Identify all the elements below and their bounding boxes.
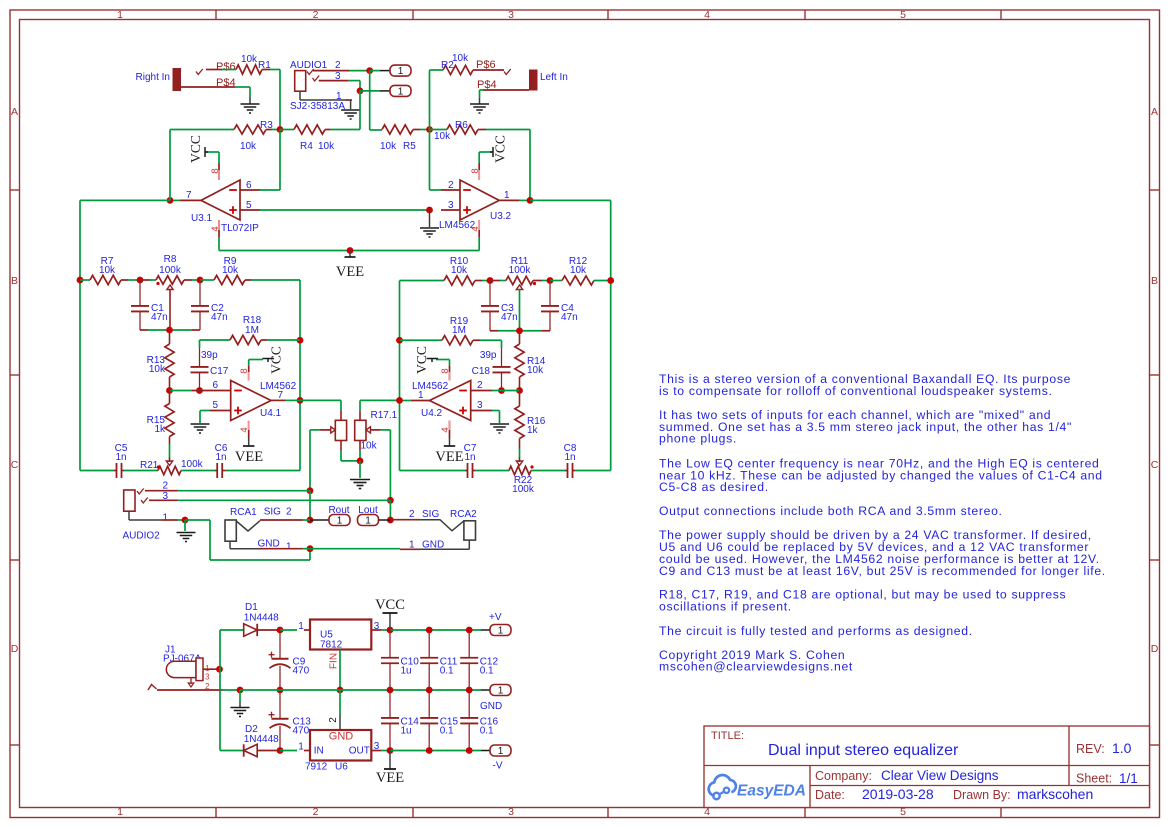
svg-text:4: 4: [239, 427, 250, 432]
svg-text:Left In: Left In: [540, 72, 568, 83]
svg-text:D1: D1: [245, 602, 258, 613]
svg-text:B: B: [11, 275, 18, 287]
svg-text:1: 1: [498, 626, 504, 637]
svg-text:C5-C8 as desired.: C5-C8 as desired.: [659, 480, 769, 494]
svg-text:OUT: OUT: [349, 746, 370, 757]
svg-text:10k: 10k: [318, 141, 335, 152]
svg-text:C17: C17: [210, 366, 229, 377]
svg-text:10k: 10k: [222, 265, 239, 276]
svg-text:Clear View Designs: Clear View Designs: [881, 768, 999, 783]
svg-text:7: 7: [278, 390, 284, 401]
svg-text:Output connections include bot: Output connections include both RCA and …: [659, 504, 1003, 518]
svg-text:Company:: Company:: [815, 769, 872, 783]
svg-text:2: 2: [313, 9, 319, 21]
svg-text:0.1: 0.1: [440, 666, 454, 677]
svg-text:5: 5: [900, 9, 906, 21]
svg-text:1n: 1n: [464, 452, 475, 463]
svg-text:3: 3: [477, 400, 483, 411]
svg-text:10k: 10k: [361, 441, 378, 452]
svg-text:2: 2: [313, 806, 319, 818]
svg-text:FIN: FIN: [329, 653, 340, 669]
svg-text:1: 1: [162, 513, 168, 524]
svg-text:1k: 1k: [527, 425, 539, 436]
svg-text:5: 5: [212, 400, 218, 411]
svg-text:VCC: VCC: [493, 135, 508, 163]
svg-text:1: 1: [337, 516, 343, 527]
svg-text:R3: R3: [260, 120, 273, 131]
svg-text:10k: 10k: [241, 54, 258, 65]
svg-text:R1: R1: [258, 60, 271, 71]
svg-text:1: 1: [286, 542, 292, 553]
svg-text:IN: IN: [314, 746, 324, 757]
svg-text:4: 4: [704, 9, 710, 21]
svg-text:39p: 39p: [201, 350, 218, 361]
svg-text:R6: R6: [455, 120, 468, 131]
svg-text:6: 6: [212, 380, 218, 391]
svg-text:10k: 10k: [452, 53, 469, 64]
svg-text:VCC: VCC: [375, 597, 405, 613]
svg-text:C: C: [11, 459, 19, 471]
svg-text:C9 and C13 must be at least 16: C9 and C13 must be at least 16V, but 25V…: [659, 564, 1106, 578]
svg-text:3: 3: [448, 200, 454, 211]
svg-text:8: 8: [470, 168, 481, 173]
svg-text:0.1: 0.1: [440, 726, 454, 737]
svg-text:10k: 10k: [451, 265, 468, 276]
svg-text:2019-03-28: 2019-03-28: [862, 786, 934, 802]
svg-text:1M: 1M: [245, 325, 259, 336]
svg-text:7812: 7812: [320, 640, 343, 651]
svg-text:U6: U6: [335, 762, 348, 773]
svg-text:8: 8: [239, 368, 250, 373]
svg-text:5: 5: [246, 200, 252, 211]
svg-text:2: 2: [448, 180, 454, 191]
svg-text:Dual input stereo equalizer: Dual input stereo equalizer: [768, 742, 959, 759]
svg-text:SIG: SIG: [422, 509, 439, 520]
svg-text:1N4448: 1N4448: [244, 734, 279, 745]
svg-text:LM4562: LM4562: [439, 220, 476, 231]
svg-text:39p: 39p: [480, 350, 497, 361]
svg-text:1: 1: [298, 742, 304, 753]
svg-text:4: 4: [210, 226, 221, 231]
svg-text:D: D: [1151, 643, 1159, 655]
svg-text:7: 7: [186, 190, 192, 201]
svg-text:3: 3: [374, 741, 380, 752]
svg-text:100k: 100k: [181, 459, 204, 470]
svg-text:1/1: 1/1: [1119, 771, 1138, 786]
svg-text:1: 1: [398, 87, 404, 98]
svg-text:47n: 47n: [561, 312, 578, 323]
svg-text:470: 470: [293, 666, 310, 677]
svg-text:1: 1: [365, 516, 371, 527]
svg-text:10k: 10k: [149, 364, 166, 375]
svg-text:0.1: 0.1: [480, 726, 494, 737]
svg-text:U4.1: U4.1: [260, 408, 282, 419]
svg-text:R8: R8: [164, 254, 177, 265]
svg-text:Drawn By:: Drawn By:: [953, 788, 1011, 802]
svg-text:C18: C18: [472, 366, 491, 377]
svg-text:470: 470: [293, 726, 310, 737]
svg-text:oscillations if present.: oscillations if present.: [659, 600, 792, 614]
svg-text:1n: 1n: [115, 452, 126, 463]
svg-text:1: 1: [298, 621, 304, 632]
svg-text:is to compensate for rolloff o: is to compensate for rolloff of conventi…: [659, 384, 1053, 398]
svg-text:1k: 1k: [154, 424, 166, 435]
svg-text:U3.1: U3.1: [191, 213, 213, 224]
svg-text:3: 3: [374, 621, 380, 632]
svg-text:A: A: [1151, 106, 1158, 118]
svg-text:47n: 47n: [151, 312, 168, 323]
svg-text:GND: GND: [258, 539, 280, 550]
svg-text:47n: 47n: [501, 312, 518, 323]
svg-text:10k: 10k: [527, 365, 544, 376]
svg-text:6: 6: [246, 180, 252, 191]
svg-text:VCC: VCC: [414, 346, 429, 374]
svg-text:10k: 10k: [570, 265, 587, 276]
svg-text:TL072IP: TL072IP: [221, 223, 259, 234]
svg-text:1: 1: [418, 390, 424, 401]
svg-text:1: 1: [498, 746, 504, 757]
svg-text:The circuit is fully tested an: The circuit is fully tested and performs…: [659, 624, 973, 638]
svg-text:AUDIO2: AUDIO2: [123, 531, 161, 542]
svg-text:47n: 47n: [211, 312, 228, 323]
svg-text:P$6: P$6: [476, 59, 496, 71]
svg-text:B: B: [1151, 275, 1158, 287]
svg-text:2: 2: [335, 60, 341, 71]
svg-text:REV:: REV:: [1076, 742, 1105, 756]
svg-text:GND: GND: [480, 701, 502, 712]
svg-text:VEE: VEE: [336, 264, 364, 280]
svg-text:VEE: VEE: [435, 449, 463, 465]
svg-text:2: 2: [328, 717, 339, 723]
svg-text:R21: R21: [140, 460, 159, 471]
svg-text:1: 1: [117, 806, 123, 818]
svg-text:1u: 1u: [401, 666, 412, 677]
svg-text:1n: 1n: [215, 452, 226, 463]
svg-text:1.0: 1.0: [1112, 740, 1132, 756]
svg-text:RCA2: RCA2: [450, 509, 477, 520]
svg-text:phone plugs.: phone plugs.: [659, 432, 737, 446]
svg-text:EasyEDA: EasyEDA: [737, 783, 806, 800]
svg-text:TITLE:: TITLE:: [711, 730, 744, 742]
svg-text:VEE: VEE: [376, 770, 404, 786]
svg-text:4: 4: [440, 427, 451, 432]
svg-text:VCC: VCC: [269, 346, 284, 374]
svg-text:AUDIO1: AUDIO1: [290, 60, 328, 71]
svg-text:GND: GND: [329, 731, 354, 743]
svg-text:Sheet:: Sheet:: [1076, 772, 1112, 786]
svg-text:R17.1: R17.1: [371, 410, 398, 421]
svg-text:8: 8: [440, 368, 451, 373]
svg-text:100k: 100k: [159, 265, 182, 276]
svg-text:1u: 1u: [401, 726, 412, 737]
svg-text:Lout: Lout: [358, 505, 378, 516]
svg-text:U4.2: U4.2: [421, 408, 443, 419]
svg-text:10k: 10k: [240, 141, 257, 152]
svg-text:+V: +V: [489, 612, 502, 623]
svg-text:100k: 100k: [509, 265, 532, 276]
svg-text:SIG: SIG: [264, 507, 281, 518]
svg-text:3: 3: [508, 9, 514, 21]
svg-text:-V: -V: [493, 761, 503, 772]
svg-text:2: 2: [286, 507, 292, 518]
svg-text:1n: 1n: [564, 452, 575, 463]
svg-text:A: A: [11, 106, 18, 118]
svg-text:markscohen: markscohen: [1017, 786, 1093, 802]
svg-text:U3.2: U3.2: [490, 211, 512, 222]
svg-text:7912: 7912: [305, 762, 328, 773]
svg-text:R4: R4: [300, 141, 313, 152]
svg-text:Right In: Right In: [136, 72, 170, 83]
svg-text:10k: 10k: [99, 265, 116, 276]
svg-text:Rout: Rout: [328, 505, 349, 516]
svg-text:1N4448: 1N4448: [244, 613, 279, 624]
svg-text:10k: 10k: [380, 141, 397, 152]
svg-text:1: 1: [504, 190, 510, 201]
svg-text:SJ2-35813A: SJ2-35813A: [290, 101, 345, 112]
svg-text:1M: 1M: [452, 325, 466, 336]
svg-text:VCC: VCC: [188, 135, 203, 163]
svg-text:100k: 100k: [512, 484, 535, 495]
svg-text:1: 1: [398, 66, 404, 77]
svg-text:1: 1: [117, 9, 123, 21]
svg-text:D: D: [11, 643, 19, 655]
svg-text:C: C: [1151, 459, 1159, 471]
svg-text:3: 3: [508, 806, 514, 818]
svg-text:0.1: 0.1: [480, 666, 494, 677]
svg-text:P$6: P$6: [216, 61, 236, 73]
svg-text:2: 2: [477, 380, 483, 391]
svg-text:3: 3: [205, 673, 210, 682]
svg-text:VEE: VEE: [235, 449, 263, 465]
svg-text:2: 2: [409, 509, 415, 520]
svg-text:10k: 10k: [434, 131, 451, 142]
svg-text:8: 8: [210, 168, 221, 173]
svg-text:R5: R5: [403, 141, 416, 152]
svg-text:1: 1: [498, 686, 504, 697]
svg-text:Date:: Date:: [815, 788, 845, 802]
svg-text:RCA1: RCA1: [230, 507, 257, 518]
svg-text:mscohen@clearviewdesigns.net: mscohen@clearviewdesigns.net: [659, 660, 853, 674]
